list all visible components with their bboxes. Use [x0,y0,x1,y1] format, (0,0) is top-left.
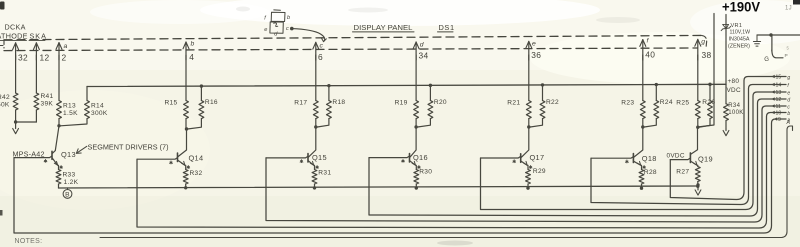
svg-text:15: 15 [776,75,782,81]
svg-text:g: g [787,75,790,81]
node R27 bottom [696,183,699,186]
ground below R27 [697,185,699,190]
ground line to page edge [757,34,800,36]
svg-text:R26: R26 [702,99,715,106]
svg-text:36: 36 [531,50,541,60]
wire joining R42 R41 [16,121,37,123]
resistor R20 segment d [429,85,431,100]
svg-text:R34: R34 [728,103,740,109]
resistor R19 segment d [414,101,419,119]
svg-text:R32: R32 [190,170,203,177]
resistor R17 segment c [313,101,318,119]
svg-text:34: 34 [419,51,429,61]
terminal arrow pin 15 [772,75,775,78]
svg-text:(ZENER): (ZENER) [728,44,750,50]
svg-text:f: f [787,83,789,89]
scan artifact top-left [0,2,5,10]
resistor R25 segment g [695,101,700,119]
svg-text:c: c [787,104,790,110]
transistor Q19 [691,127,698,154]
svg-text:Q13: Q13 [61,150,76,159]
node junction segment g [696,126,699,129]
wire base route Q13 to edge terminal [14,119,786,233]
svg-text:R20: R20 [434,99,447,106]
asterisk at Q17 base [513,160,515,162]
resistor R26 segment g [709,84,711,100]
resistor R27 emitter of Q19 [695,167,700,182]
node junction segment e [527,125,530,128]
node R32 on emitter bus [184,186,187,189]
svg-text:VDC: VDC [727,87,741,94]
pin 2 arrow segment a [58,43,60,60]
svg-text:CATHODE: CATHODE [0,32,28,41]
wire pin 4 down through rail [185,55,187,101]
svg-text:e: e [264,27,267,33]
svg-text:B: B [65,191,70,198]
svg-text:R27: R27 [676,169,689,176]
svg-text:100K: 100K [728,110,743,116]
svg-text:R33: R33 [63,172,76,179]
svg-text:g: g [701,38,705,45]
terminal arrow pin 11 [772,104,775,107]
scan artifact top-right corner [793,0,800,5]
svg-text:40: 40 [645,50,655,60]
svg-text:d: d [787,97,790,103]
svg-text:Q18: Q18 [642,154,657,163]
asterisk at Q14 emitter [187,166,189,168]
svg-text:2: 2 [62,52,67,62]
svg-text:R23: R23 [621,100,634,107]
asterisk at Q16 emitter [418,166,420,168]
wire pin 40 down through rail [642,55,644,101]
svg-text:R21: R21 [507,100,520,107]
asterisk at Q14 base [170,161,172,163]
pin 36 arrow segment e [528,41,530,60]
svg-text:14: 14 [776,83,782,89]
resistor R21 segment e [526,101,531,119]
resistor R29 emitter of Q17 [526,170,531,185]
node on ground line [769,33,772,36]
svg-text:NOTES:: NOTES: [15,238,43,245]
resistor R41 39K [34,93,39,110]
svg-text:DS1: DS1 [439,23,455,32]
node R30 on emitter bus [415,186,418,189]
svg-text:0VDC: 0VDC [667,153,685,160]
scan artifact left edge [0,210,3,216]
svg-text:9: 9 [778,117,781,123]
svg-text:c: c [286,26,289,32]
wire base route Q14 to edge terminal [137,113,786,229]
svg-text:6: 6 [318,52,323,62]
svg-text:+190V: +190V [722,0,761,15]
asterisk at Q17 emitter [530,166,532,168]
svg-text:+80: +80 [728,78,740,85]
resistor R16 segment b [200,86,202,100]
ground below R42/R41 [15,122,17,129]
resistor R32 emitter of Q14 [183,170,188,185]
svg-text:VR1: VR1 [731,23,743,29]
display panel boundary right elbow [702,36,707,48]
svg-text:300K: 300K [91,110,108,117]
asterisk at Q16 base [402,159,404,161]
outer spare bus wire [100,126,793,238]
wire pin 2 down through rail [58,55,60,101]
transistor Q16 [410,127,416,157]
node R26 on rail [708,83,711,86]
svg-text:10: 10 [776,111,782,117]
display panel boundary (dashed) top line [4,35,705,39]
terminal arrow pin 14 [772,83,775,86]
svg-text:12: 12 [40,53,50,63]
node junction segment c [314,125,317,128]
wire +190V feed down to node G junction [698,14,714,128]
svg-text:b: b [787,111,790,117]
wire base route Q17 to edge terminal [481,92,787,210]
svg-text:R16: R16 [205,99,218,106]
transistor Q15 [309,127,316,157]
svg-text:R41: R41 [41,93,54,100]
+80 VDC rail [87,84,726,86]
pin 12 arrow [35,43,37,60]
transistor Q13 [52,126,59,154]
node junction segment a [57,124,60,127]
svg-text:R13: R13 [63,103,76,110]
node B [67,188,69,190]
resistor R34 100K [725,84,727,103]
svg-text:Q15: Q15 [312,153,327,162]
svg-text:e: e [787,90,790,96]
svg-text:d: d [274,32,278,38]
wire pin 34 down through rail [415,55,417,101]
svg-text:R22: R22 [546,99,559,106]
svg-text:R24: R24 [660,99,673,106]
resistor R14 segment a [86,87,88,101]
node R42/R41 [14,120,17,123]
asterisk at Q13 emitter [60,166,62,168]
asterisk at Q13 base [45,159,47,161]
svg-text:MPS-A42: MPS-A42 [13,149,45,158]
node R22 on rail [541,83,544,86]
svg-text:1.2K: 1.2K [64,179,79,186]
svg-text:SKA: SKA [30,32,47,41]
terminal G stub [772,50,783,58]
svg-text:R18: R18 [332,99,345,106]
svg-text:1.5K: 1.5K [63,110,78,117]
node junction segment d [414,125,417,128]
seven-segment display symbol DS1 [271,12,285,21]
svg-text:a: a [64,43,68,50]
wire pin32 down [15,55,17,93]
transistor Q18 [634,127,643,157]
svg-text:R14: R14 [91,103,104,110]
svg-text:e: e [532,40,536,47]
svg-text:39K: 39K [41,101,54,108]
svg-text:R29: R29 [533,168,546,175]
svg-text:b: b [191,40,195,47]
svg-text:Q19: Q19 [698,154,713,163]
svg-text:32: 32 [18,53,28,63]
wire pin 38 down through rail [697,55,699,101]
svg-text:13: 13 [776,90,782,96]
svg-text:P: P [785,53,789,59]
node R24 on rail [655,83,658,86]
wire base route Q16 to edge terminal [369,99,786,216]
svg-text:b: b [287,15,290,21]
resistor R24 segment f [655,85,657,101]
node junction segment f [641,125,644,128]
svg-text:DCKA: DCKA [5,23,26,32]
wire pin 6 down through rail [315,55,317,101]
resistor R42 50K [13,93,18,110]
svg-text:R15: R15 [165,100,178,107]
svg-text:R30: R30 [419,169,432,176]
svg-text:5: 5 [787,46,790,51]
asterisk at Q18 base [626,160,628,162]
emitter bus wire [59,186,699,188]
display panel boundary (dashed) bottom line [4,48,697,51]
wire base route Q19 to edge terminal [670,77,786,200]
svg-text:R25: R25 [676,100,689,107]
svg-text:R19: R19 [395,100,408,107]
pin 4 arrow segment b [185,42,187,60]
wire pin 36 down through rail [528,55,530,101]
wire base route Q18 to edge terminal [591,85,786,205]
svg-text:1J: 1J [785,6,792,12]
pointer from segment c to pin 6 wire [290,27,294,31]
node R28 on emitter bus [640,187,643,190]
svg-text:R42: R42 [0,94,10,101]
asterisk at Q18 emitter [643,166,645,168]
node R16 on rail [200,84,203,87]
resistor R30 emitter of Q16 [414,170,419,185]
wire base route Q15 to edge terminal [266,106,786,222]
transistor Q14 [178,129,187,157]
node junction segment b [185,127,188,130]
node R20 on rail [429,84,432,87]
asterisk at Q15 emitter [316,166,318,168]
display panel boundary left end [3,41,5,49]
terminal arrow pin 13 [772,90,775,93]
svg-text:IN3045A: IN3045A [729,37,750,43]
svg-text:Q17: Q17 [530,153,545,162]
resistor R15 segment b [184,101,189,119]
pin 32 arrow [15,43,17,60]
pin 6 arrow segment c [315,42,317,60]
node R18 on rail [327,84,330,87]
svg-text:G: G [764,57,769,63]
node R29 on emitter bus [526,186,529,189]
terminal arrow pin 12 [772,97,775,100]
svg-text:11: 11 [776,104,781,110]
svg-text:R17: R17 [294,100,307,107]
zener VR1 [725,15,727,85]
resistor R13 segment a [57,101,62,119]
svg-text:110V,1W: 110V,1W [730,30,751,36]
svg-text:4: 4 [189,52,194,62]
ground below R34 [725,129,727,131]
resistor R31 emitter of Q15 [312,170,317,185]
resistor R18 segment c [328,86,330,101]
resistor R22 segment e [542,85,544,101]
resistor R28 emitter of Q18 [639,170,644,185]
svg-text:12: 12 [776,97,782,103]
ground symbol (bars) [756,35,758,41]
svg-text:R31: R31 [318,170,331,177]
transistor Q17 [521,127,529,157]
svg-text:50K: 50K [0,102,10,109]
svg-text:Q14: Q14 [189,154,204,163]
terminal arrow pin 10 [772,111,775,114]
pin 34 arrow segment d [415,42,417,60]
svg-text:c: c [320,43,324,50]
svg-text:Q16: Q16 [413,153,428,162]
resistor R33 emitter of Q13 [56,170,61,185]
node R27 on emitter bus [696,185,699,188]
svg-text:R28: R28 [644,169,657,176]
svg-text:38: 38 [702,50,712,60]
wire pin12 down [35,55,37,93]
pin 38 arrow segment g [697,39,699,60]
terminal arrow pin 9 [774,117,777,120]
svg-text:SEGMENT DRIVERS (7): SEGMENT DRIVERS (7) [88,143,169,152]
node R31 on emitter bus [313,186,316,189]
resistor R23 segment f [640,101,645,119]
wire ground line to terminal G [771,35,773,51]
asterisk at Q15 base [301,160,303,162]
svg-text:d: d [420,41,424,48]
svg-text:DISPLAY PANEL: DISPLAY PANEL [354,23,413,32]
pin 40 arrow segment f [642,40,644,60]
svg-text:A: A [786,120,791,126]
